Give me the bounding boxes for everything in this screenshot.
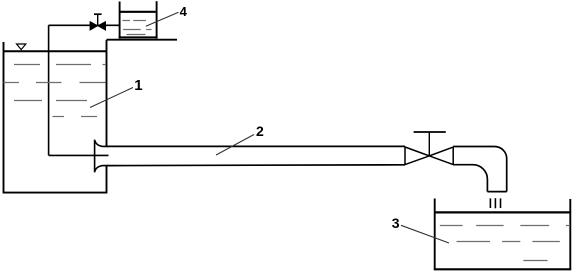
- svg-text:1: 1: [134, 77, 142, 94]
- svg-text:4: 4: [180, 4, 188, 19]
- svg-text:3: 3: [392, 215, 400, 231]
- svg-text:2: 2: [256, 123, 264, 139]
